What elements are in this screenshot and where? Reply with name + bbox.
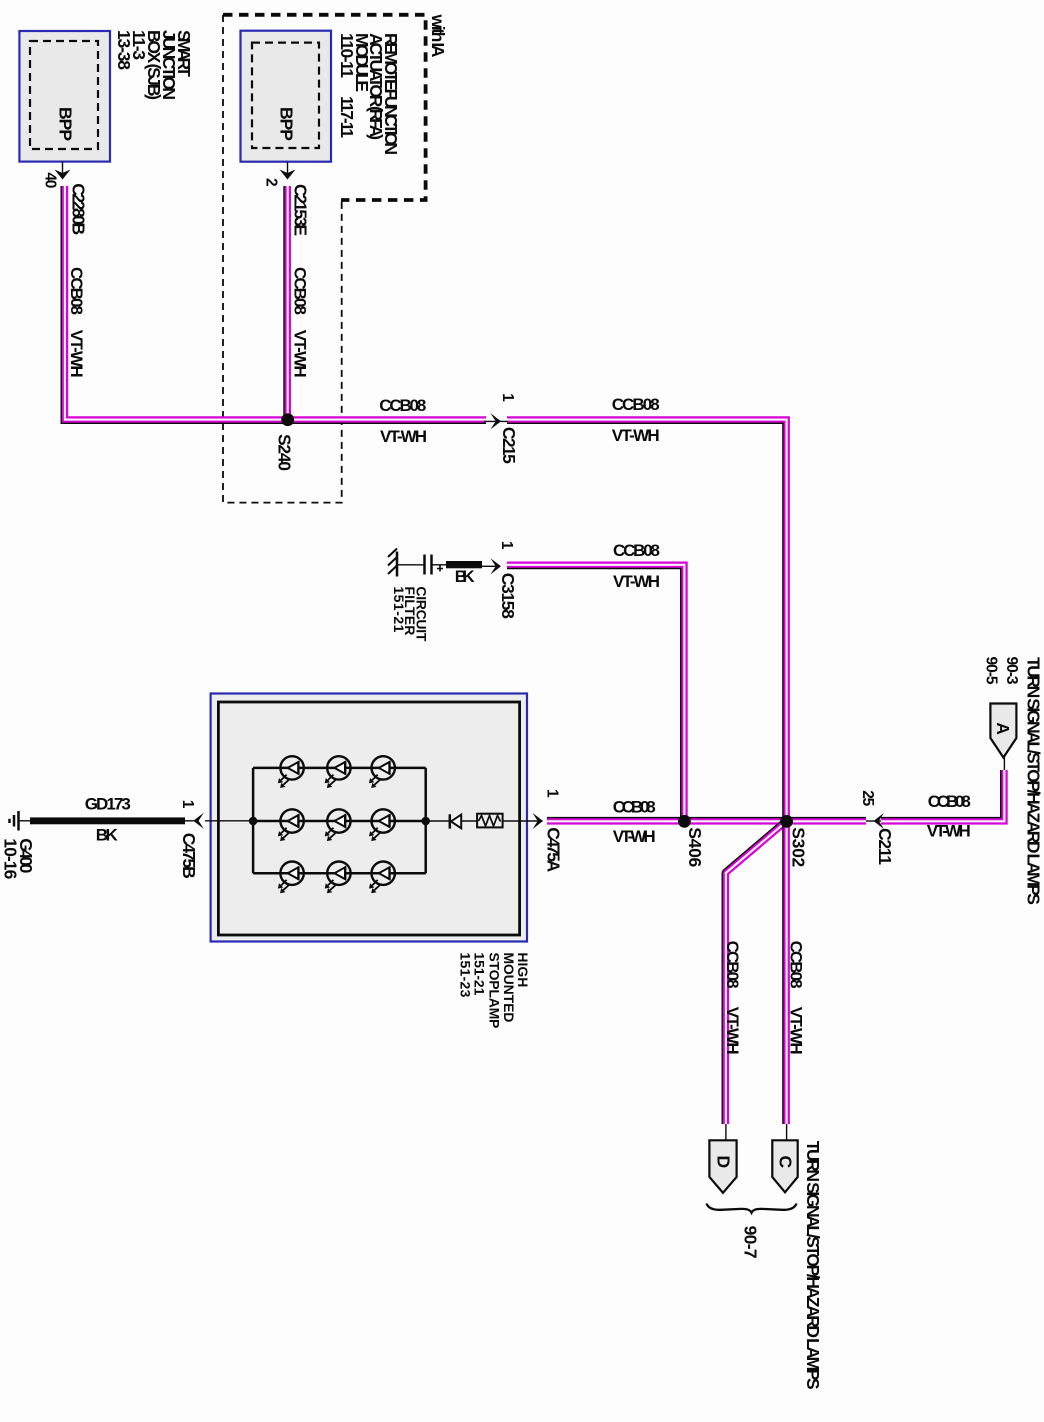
svg-text:VT-WH: VT-WH	[613, 827, 656, 846]
svg-text:117-11: 117-11	[337, 96, 357, 138]
svg-text:VT-WH: VT-WH	[380, 427, 427, 446]
svg-text:D: D	[713, 1156, 733, 1169]
svg-text:BPP: BPP	[277, 107, 297, 141]
svg-text:TURN SIGNAL/STOP/HAZARD LAMPS: TURN SIGNAL/STOP/HAZARD LAMPS	[803, 1141, 823, 1390]
svg-text:CCB08: CCB08	[612, 395, 660, 414]
svg-text:VT-WH: VT-WH	[290, 330, 309, 378]
svg-text:10-16: 10-16	[1, 838, 21, 879]
svg-text:TURN SIGNAL/STOP/HAZARD LAMPS: TURN SIGNAL/STOP/HAZARD LAMPS	[1024, 657, 1044, 905]
svg-text:C475A: C475A	[544, 827, 564, 872]
svg-text:90-3: 90-3	[1003, 657, 1020, 685]
svg-text:CCB08: CCB08	[786, 941, 805, 989]
svg-text:C2280B: C2280B	[68, 183, 88, 235]
svg-text:CCB08: CCB08	[723, 941, 742, 989]
svg-text:BK: BK	[96, 826, 119, 845]
svg-text:C211: C211	[875, 828, 895, 865]
svg-text:151-21: 151-21	[391, 586, 407, 632]
svg-text:1: 1	[498, 541, 515, 550]
svg-text:CCB08: CCB08	[290, 267, 309, 315]
svg-text:C2153E: C2153E	[291, 184, 311, 236]
svg-text:CCB08: CCB08	[613, 541, 660, 560]
svg-text:VT-WH: VT-WH	[927, 822, 971, 841]
svg-text:with IA: with IA	[428, 14, 448, 58]
svg-text:C: C	[776, 1156, 796, 1169]
svg-text:151-23: 151-23	[457, 952, 473, 997]
svg-text:CCB08: CCB08	[928, 792, 971, 811]
svg-text:GD173: GD173	[85, 795, 131, 814]
svg-text:13-38: 13-38	[114, 30, 134, 70]
svg-text:25: 25	[859, 790, 876, 806]
svg-text:STOPLAMP: STOPLAMP	[487, 952, 503, 1028]
svg-text:CCB08: CCB08	[613, 798, 656, 817]
svg-text:BK: BK	[455, 567, 476, 586]
svg-text:BPP: BPP	[56, 107, 76, 141]
svg-text:VT-WH: VT-WH	[723, 1007, 742, 1055]
svg-text:CCB08: CCB08	[379, 396, 426, 415]
svg-text:C3158: C3158	[498, 573, 518, 619]
svg-text:VT-WH: VT-WH	[67, 330, 86, 378]
svg-text:1: 1	[179, 800, 196, 809]
svg-text:A: A	[993, 722, 1013, 735]
svg-text:S406: S406	[685, 827, 705, 867]
svg-text:S240: S240	[275, 434, 295, 471]
svg-text:VT-WH: VT-WH	[613, 572, 660, 591]
svg-text:S302: S302	[789, 827, 809, 867]
svg-text:2: 2	[263, 178, 280, 187]
svg-text:90-7: 90-7	[741, 1226, 761, 1259]
svg-text:C475B: C475B	[179, 833, 199, 879]
svg-text:40: 40	[41, 172, 58, 188]
svg-text:VT-WH: VT-WH	[612, 426, 660, 445]
svg-text:VT-WH: VT-WH	[786, 1007, 805, 1055]
svg-text:1: 1	[499, 393, 516, 402]
svg-text:1: 1	[544, 789, 561, 798]
svg-text:110-11: 110-11	[337, 33, 357, 78]
svg-text:C215: C215	[499, 427, 519, 464]
svg-text:90-5: 90-5	[983, 657, 1000, 685]
svg-text:CCB08: CCB08	[67, 267, 86, 315]
